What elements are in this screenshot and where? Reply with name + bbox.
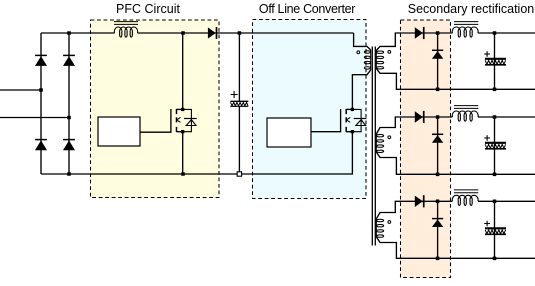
wire U1 gate drive to Q1 bbox=[140, 109, 171, 132]
svg-text:Off Line Converter: Off Line Converter bbox=[259, 2, 355, 16]
wire bridge left column bbox=[40, 33, 42, 174]
wire secondary 2 top lead to rectifier bbox=[376, 117, 452, 134]
Secondary rectification dashed region box bbox=[401, 20, 451, 278]
wire secondary 1 top lead to rectifier bbox=[376, 33, 452, 51]
Off Line Converter dashed region box bbox=[253, 20, 367, 199]
junction node: stage 1 output at C2 top bbox=[493, 31, 497, 35]
diode Q1 body diode bbox=[183, 109, 197, 131]
wire secondary 2 bottom lead / output return bbox=[376, 152, 535, 174]
label: Off Line Converter bbox=[259, 2, 355, 16]
diode D6 stage 1 series rectifier bbox=[415, 27, 424, 39]
junction node: stage 1 switch node bbox=[436, 31, 440, 35]
inductor L1 PFC boost inductor with core bars bbox=[114, 22, 138, 38]
node: T1 secondary 2 phase dot bbox=[388, 136, 391, 139]
inductor L4 stage 3 output filter with core bars bbox=[452, 190, 478, 206]
wire U2 gate drive to Q2 bbox=[311, 109, 341, 132]
node: T1 secondary 1 phase dot bbox=[388, 51, 391, 54]
diode D10 stage 3 series rectifier bbox=[415, 195, 424, 207]
junction node: Q2 source bbox=[351, 130, 354, 133]
wire Q1 drain to top rail bbox=[182, 33, 184, 109]
junction node: right column top rail bbox=[67, 31, 71, 35]
wire secondary 3 top lead to rectifier bbox=[376, 201, 452, 219]
capacitor C3 stage 2 output electrolytic bbox=[484, 117, 506, 174]
PFC controller U1 bbox=[98, 117, 140, 146]
wire top rail (bridge to PFC inductor) bbox=[41, 32, 115, 34]
diode D7 stage 1 freewheel bbox=[432, 50, 443, 58]
junction node: input1 to left column bbox=[39, 88, 43, 92]
diode D3 bridge lower-left bbox=[35, 140, 47, 151]
transformer T1 secondary winding 1 bbox=[376, 51, 383, 70]
wire top rail into transformer primary bbox=[354, 33, 371, 50]
wire bridge right column bbox=[68, 33, 70, 174]
diode Q2 body diode bbox=[352, 109, 366, 131]
diode D11 stage 3 freewheel bbox=[432, 219, 443, 227]
label: Secondary rectification bbox=[408, 2, 535, 16]
junction node: bottom rail at Q1 source bbox=[181, 172, 185, 176]
junction node: top rail at Q1 drain bbox=[181, 31, 185, 35]
junction node: stage 1 return at C2 bottom bbox=[493, 88, 497, 92]
transformer T1 secondary winding 2 bbox=[376, 134, 383, 153]
wire AC input line 1 bbox=[0, 89, 41, 91]
label: PFC Circuit bbox=[116, 2, 180, 16]
diode D1 bridge upper-left bbox=[35, 55, 47, 66]
transformer T1 core bbox=[372, 47, 375, 246]
junction node: Q1 drain bbox=[181, 108, 184, 111]
wire stage 3 freewheel branch bbox=[437, 201, 439, 258]
junction node: stage 2 switch node bbox=[436, 115, 440, 119]
wire bridge bottom rail to off-line converter bbox=[41, 132, 352, 174]
junction node: stage 3 switch node bbox=[436, 200, 440, 204]
diode D2 bridge upper-right bbox=[63, 55, 75, 66]
wire stage 1 freewheel branch bbox=[437, 33, 439, 89]
junction node: stage 3 output at C4 top bbox=[493, 200, 497, 204]
wire Q1 source to bottom rail bbox=[182, 132, 184, 174]
inductor L3 stage 2 output filter with core bars bbox=[452, 106, 478, 122]
diode D8 stage 2 series rectifier bbox=[415, 111, 424, 123]
capacitor C1 boost bulk electrolytic bbox=[230, 33, 248, 174]
junction node: stage 2 return at freewheel bbox=[436, 173, 440, 177]
wire secondary 3 bottom lead / output return bbox=[376, 237, 535, 258]
off-line controller U2 bbox=[267, 118, 311, 147]
junction node: stage 2 return at C3 bottom bbox=[493, 173, 497, 177]
inductor L2 stage 1 output filter with core bars bbox=[452, 22, 478, 38]
svg-text:PFC Circuit: PFC Circuit bbox=[116, 2, 180, 16]
wire stage 3 output positive bbox=[478, 200, 535, 202]
wire stage 2 freewheel branch bbox=[437, 117, 439, 174]
junction node: input2 to right column bbox=[67, 116, 71, 120]
capacitor C4 stage 3 output electrolytic bbox=[484, 201, 506, 258]
diode D5 PFC boost diode bbox=[208, 27, 217, 39]
junction node: stage 2 output at C3 top bbox=[493, 115, 497, 119]
transformer T1 primary winding bbox=[364, 50, 370, 70]
junction node: stage 3 return at C4 bottom bbox=[493, 257, 497, 261]
diode D9 stage 2 freewheel bbox=[432, 134, 443, 142]
diode D4 bridge lower-right bbox=[63, 140, 75, 151]
node: T1 secondary 3 phase dot bbox=[388, 221, 391, 224]
transformer T1 secondary winding 3 bbox=[376, 219, 383, 238]
transistor Q2 off-line MOSFET bbox=[346, 109, 352, 132]
svg-text:Secondary rectification: Secondary rectification bbox=[408, 2, 535, 16]
wire top rail (L1 to boost diode and node) bbox=[138, 32, 354, 34]
junction node: right column bottom rail bbox=[67, 172, 71, 176]
node: T1 primary phase dot bbox=[357, 51, 360, 54]
capacitor C2 stage 1 output electrolytic bbox=[484, 33, 506, 89]
PFC Circuit dashed region box bbox=[91, 20, 220, 198]
junction node: Q2 drain bbox=[351, 108, 354, 111]
junction node: top rail at C1 bbox=[238, 31, 242, 35]
wire secondary 1 bottom lead / output return bbox=[376, 69, 535, 90]
transistor Q1 PFC MOSFET bbox=[177, 109, 183, 132]
junction node: stage 1 return at freewheel bbox=[436, 88, 440, 92]
junction node: stage 3 return at freewheel bbox=[436, 257, 440, 261]
wire stage 2 output positive bbox=[478, 116, 535, 118]
wire AC input line 2 bbox=[0, 117, 69, 119]
node: bottom rail at C1 (open square) bbox=[237, 172, 241, 176]
wire stage 1 output positive bbox=[478, 32, 535, 34]
wire Q2 drain to transformer primary bbox=[352, 70, 370, 109]
junction node: Q1 source bbox=[181, 130, 184, 133]
